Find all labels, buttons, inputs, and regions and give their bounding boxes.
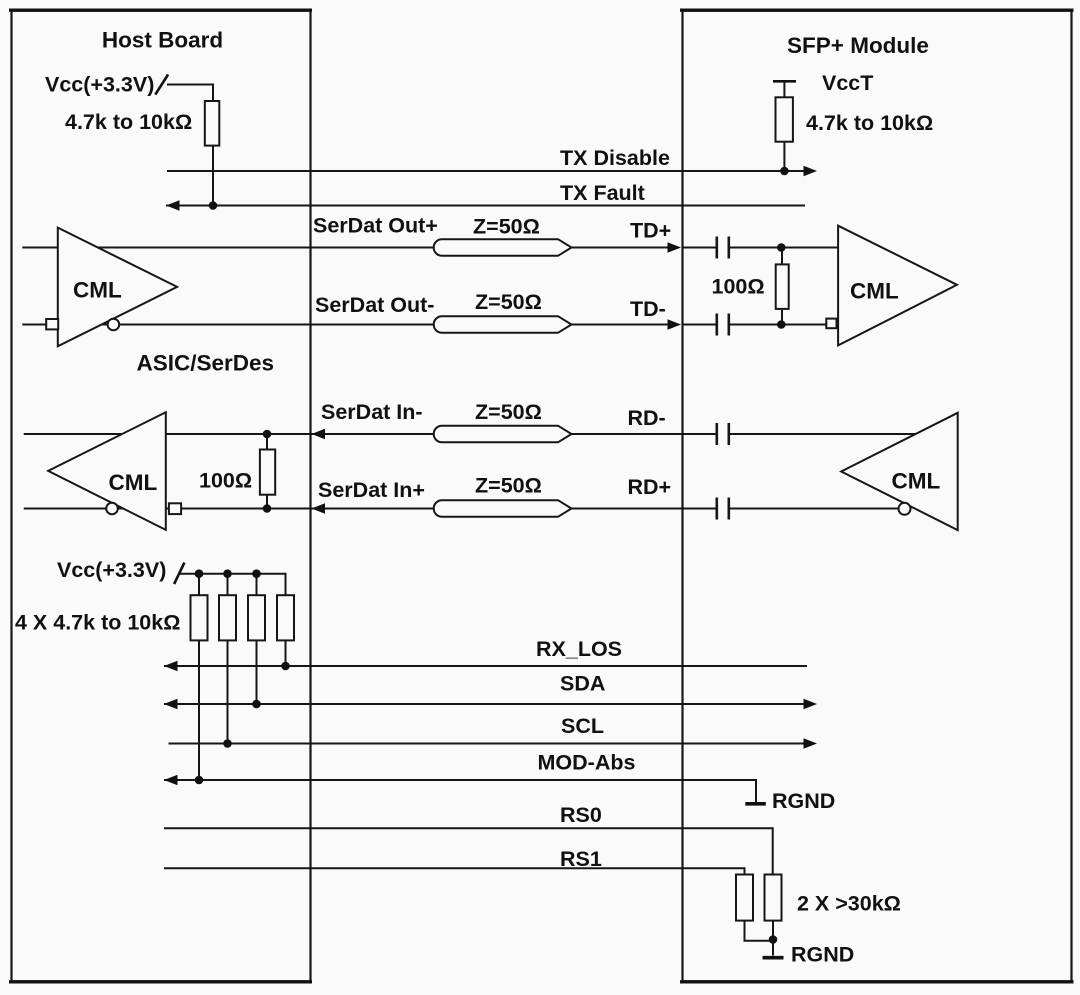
wire VccT to R2	[783, 81, 785, 97]
wire Vcc to R1	[167, 85, 213, 102]
svg-text:4.7k to 10kΩ: 4.7k to 10kΩ	[65, 110, 192, 134]
wire MOD-Abs	[164, 780, 756, 803]
resistor R2 4.7k-10k (module)	[776, 97, 793, 141]
svg-text:RS0: RS0	[560, 803, 602, 827]
transmission line Z=50 (Out+)	[434, 239, 572, 256]
arrow In+ left	[312, 503, 326, 513]
svg-text:CML: CML	[850, 279, 899, 304]
op-amp U4 CML receiver (module RX)	[841, 413, 958, 530]
inversion bubble U3	[106, 503, 118, 515]
wire TX Disable	[167, 170, 812, 172]
wire RD- (line side)	[569, 433, 716, 435]
junction In+/100ohm	[263, 504, 272, 513]
junction R1/TX Fault	[209, 201, 218, 210]
wire R1 to TX Fault	[212, 146, 214, 206]
svg-text:ASIC/SerDes: ASIC/SerDes	[137, 351, 275, 376]
svg-text:2 X >30kΩ: 2 X >30kΩ	[797, 892, 901, 916]
svg-text:SerDat In-: SerDat In-	[321, 400, 423, 424]
svg-text:Z=50Ω: Z=50Ω	[473, 215, 540, 239]
svg-text:TX Disable: TX Disable	[560, 146, 670, 170]
transmission line Z=50 (In-)	[434, 426, 572, 443]
wire SerDat Out+ (host side)	[22, 247, 434, 249]
svg-text:VccT: VccT	[822, 71, 873, 95]
svg-text:Z=50Ω: Z=50Ω	[475, 290, 542, 314]
svg-text:RD-: RD-	[628, 406, 666, 430]
svg-text:TD-: TD-	[630, 297, 666, 321]
arrow RX_LOS left	[164, 661, 178, 671]
capacitor C4 RD+	[715, 498, 718, 520]
resistor 2X >30k (RS1)	[736, 875, 753, 921]
junction dots on signal lines	[281, 662, 290, 671]
op-amp U3 CML receiver (host RX)	[48, 412, 166, 530]
resistor R1 4.7k-10k (host)	[205, 101, 220, 146]
junction R2/TX Disable	[780, 167, 789, 176]
svg-text:CML: CML	[109, 470, 158, 495]
resistor 100ohm (host)	[260, 450, 275, 495]
transmission line Z=50 (In+)	[434, 500, 572, 517]
Vcc(+3.3V) power slash (host top)	[155, 75, 168, 95]
inverting input square U3	[169, 503, 181, 514]
wires layer	[22, 171, 918, 956]
svg-text:MOD-Abs: MOD-Abs	[538, 751, 636, 775]
svg-text:RGND: RGND	[772, 789, 835, 813]
svg-text:RGND: RGND	[791, 943, 854, 967]
svg-text:Vcc(+3.3V): Vcc(+3.3V)	[45, 73, 154, 97]
wire RX_LOS	[164, 665, 807, 667]
svg-text:4 X 4.7k to 10kΩ: 4 X 4.7k to 10kΩ	[15, 611, 180, 635]
resistor 2X >30k (RS0)	[765, 875, 782, 921]
svg-text:Host Board: Host Board	[102, 28, 223, 53]
rail stubs to resistors	[198, 574, 200, 596]
arrow SDA left	[164, 699, 178, 709]
svg-text:100Ω: 100Ω	[712, 275, 765, 299]
wire TD+ (line side)	[569, 247, 679, 249]
wire SCL	[169, 743, 813, 745]
op-amp U2 CML receiver (module TX input)	[838, 226, 957, 346]
wire TD- (module side)	[682, 324, 716, 326]
Vcc rail wire	[180, 574, 286, 596]
sfp module box	[680, 10, 1074, 982]
wire TD- (line side)	[569, 324, 679, 326]
wire 2X resistors to RGND	[745, 921, 774, 956]
wire RD+ (module side)	[730, 508, 900, 510]
capacitor C3 RD-	[715, 423, 718, 445]
arrow MOD-Abs left	[164, 775, 178, 785]
svg-text:4.7k to 10kΩ: 4.7k to 10kΩ	[806, 111, 933, 135]
arrow SDA right	[804, 699, 818, 709]
resistor bank 4x 4.7k-10k	[191, 595, 208, 640]
arrow TD- right	[668, 319, 682, 329]
inversion bubble U1	[108, 319, 120, 331]
svg-text:SFP+ Module: SFP+ Module	[787, 33, 929, 58]
arrow SCL right	[804, 738, 818, 748]
svg-text:TX Fault: TX Fault	[560, 181, 645, 205]
Vcc(+3.3V) power slash (host bottom)	[174, 563, 184, 585]
svg-text:CML: CML	[892, 469, 941, 494]
wire RS0	[164, 828, 773, 874]
inverting input square U2	[826, 319, 836, 329]
wire RD- (module side)	[730, 433, 919, 435]
svg-text:RD+: RD+	[628, 475, 672, 499]
svg-text:Vcc(+3.3V): Vcc(+3.3V)	[57, 558, 166, 582]
wire R2 to TX Disable	[783, 142, 785, 171]
wire RD+ (line side)	[569, 508, 716, 510]
svg-text:CML: CML	[73, 278, 122, 303]
wire TD+ (module side)	[682, 247, 716, 249]
svg-text:RX_LOS: RX_LOS	[536, 637, 622, 661]
svg-text:TD+: TD+	[630, 219, 671, 243]
svg-text:Z=50Ω: Z=50Ω	[475, 400, 542, 424]
svg-text:100Ω: 100Ω	[199, 469, 252, 493]
inversion bubble U4	[899, 503, 911, 515]
op-amp U1 CML driver (host TX)	[58, 228, 177, 347]
wire RS1	[164, 868, 745, 874]
wire TX Fault	[166, 205, 805, 207]
svg-text:Z=50Ω: Z=50Ω	[475, 474, 542, 498]
ground RGND (MOD-Abs)	[745, 802, 766, 806]
wire SerDat Out- (host side)	[22, 324, 434, 326]
pull-up verticals to signal lines	[198, 640, 200, 780]
wire SerDat In- (host side)	[24, 433, 434, 435]
arrow TD+ right	[668, 242, 682, 252]
ground RGND (2X resistors)	[763, 956, 784, 960]
junction In-/100ohm	[263, 430, 272, 439]
inverting input square U1	[46, 319, 58, 329]
svg-text:RS1: RS1	[560, 847, 602, 871]
transmission line Z=50 (Out-)	[434, 316, 572, 333]
capacitor C2 TD-	[715, 314, 718, 336]
svg-text:SCL: SCL	[561, 714, 604, 738]
VccT power tee (module top)	[773, 80, 796, 83]
arrow TX Fault left	[166, 200, 180, 210]
host board box	[9, 10, 312, 982]
wire SDA	[164, 703, 812, 705]
svg-text:SerDat In+: SerDat In+	[318, 478, 425, 502]
svg-text:SerDat Out+: SerDat Out+	[313, 214, 438, 238]
junction TD+/100ohm	[777, 243, 786, 252]
components layer	[46, 75, 958, 958]
junction TD-/100ohm	[777, 320, 786, 329]
arrow TX Disable right	[804, 166, 818, 176]
wire SerDat In+ (host side)	[24, 508, 434, 510]
svg-text:SerDat Out-: SerDat Out-	[315, 293, 434, 317]
capacitor C1 TD+	[715, 237, 718, 259]
junction at RGND	[769, 935, 778, 944]
arrow In- left	[312, 429, 326, 439]
junction dots on rail	[195, 569, 204, 578]
svg-text:SDA: SDA	[560, 672, 605, 696]
resistor 100ohm (module)	[776, 264, 789, 309]
